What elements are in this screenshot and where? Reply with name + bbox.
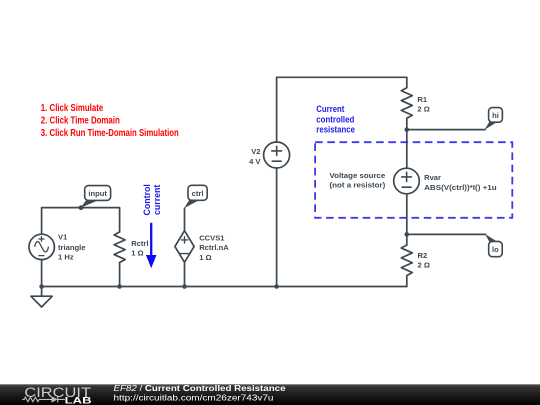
- junction: node input anchor: [79, 205, 84, 210]
- annotation: blue current controlled resistance: [316, 104, 355, 134]
- node hi flag: [484, 108, 502, 130]
- svg-text:EF82 / Current Controlled Resi: EF82 / Current Controlled Resistance: [114, 384, 287, 393]
- footer bar: [0, 384, 540, 405]
- node ctrl flag: [184, 185, 207, 208]
- svg-text:2. Click Time Domain: 2. Click Time Domain: [41, 116, 120, 127]
- resistor Rctrl: [114, 232, 125, 263]
- label V2 value: [249, 147, 261, 166]
- voltage source V2 circle: [264, 142, 290, 168]
- label Rvar value: [424, 173, 497, 192]
- svg-text:R2: R2: [418, 251, 428, 260]
- V2 plus sign: [272, 146, 282, 155]
- svg-text:(not a resistor): (not a resistor): [330, 181, 386, 190]
- V1 sine glyph: [35, 242, 49, 252]
- svg-text:hi: hi: [492, 111, 499, 120]
- svg-text:http://circuitlab.com/cm26zer7: http://circuitlab.com/cm26zer743v7u: [114, 393, 274, 402]
- junction: ground rail at V2: [274, 284, 279, 289]
- svg-text:ABS(V(ctrl))*I() +1u: ABS(V(ctrl))*I() +1u: [424, 183, 497, 192]
- svg-text:V1: V1: [58, 233, 68, 242]
- svg-text:3. Click Run Time-Domain Simul: 3. Click Run Time-Domain Simulation: [41, 128, 179, 139]
- Rvar minus sign: [402, 186, 411, 188]
- svg-text:1 Hz: 1 Hz: [58, 253, 74, 262]
- label CCVS1 value: [199, 233, 229, 262]
- svg-text:1 Ω: 1 Ω: [199, 253, 211, 262]
- resistor R1: [401, 88, 412, 119]
- label R2 value: [418, 251, 430, 270]
- svg-text:Rvar: Rvar: [424, 173, 441, 182]
- V1 minus sign: [39, 255, 44, 257]
- svg-text:Control: Control: [142, 184, 152, 215]
- V1 plus sign: [39, 237, 44, 242]
- node input flag: [81, 186, 111, 208]
- controlled source Rvar circle: [394, 168, 420, 194]
- V2 minus sign: [272, 160, 281, 162]
- Rvar plus sign: [402, 172, 412, 181]
- svg-text:Current: Current: [316, 104, 344, 114]
- annotation: control current rotated text: [142, 184, 162, 215]
- svg-text:V2: V2: [251, 147, 260, 156]
- label R1 value: [417, 95, 429, 114]
- svg-text:Rctrl: Rctrl: [131, 239, 148, 248]
- svg-text:LAB: LAB: [65, 396, 92, 405]
- svg-text:input: input: [88, 189, 107, 198]
- svg-text:1 Ω: 1 Ω: [131, 249, 143, 258]
- wire: R2 bottom to rail: [406, 276, 408, 287]
- wire: V1 bottom to ground rail: [41, 260, 43, 287]
- svg-text:Voltage source: Voltage source: [330, 171, 386, 180]
- annotation: red simulation instructions: [41, 103, 179, 139]
- svg-text:1. Click Simulate: 1. Click Simulate: [41, 103, 104, 114]
- svg-text:controlled: controlled: [316, 114, 354, 124]
- label V1 value: [58, 233, 85, 262]
- wire: hi branch horizontal: [407, 129, 485, 131]
- wire: ground rail (bottom net): [42, 286, 407, 288]
- junction: node hi: [405, 127, 410, 132]
- voltage source V1 circle: [29, 234, 54, 259]
- wire: R1 bottom to hi junction and down to Rvar: [406, 118, 408, 168]
- wire: Rctrl bottom to rail: [119, 263, 121, 287]
- svg-text:2 Ω: 2 Ω: [417, 105, 429, 114]
- svg-text:4 V: 4 V: [249, 157, 261, 166]
- svg-text:2 Ω: 2 Ω: [418, 261, 430, 270]
- wire: CCVS1 bottom to rail: [184, 262, 186, 286]
- wire: V2 bottom to rail: [276, 168, 278, 287]
- CCVS1 plus sign: [181, 237, 187, 243]
- svg-text:ctrl: ctrl: [192, 189, 204, 198]
- wire: input node horizontal (V1 top to Rctrl top): [42, 208, 120, 235]
- junction: ground rail at V1: [39, 284, 44, 289]
- label Rctrl value: [131, 239, 148, 258]
- controlled source CCVS1 diamond: [175, 231, 194, 263]
- ground symbol: [31, 287, 52, 308]
- svg-text:lo: lo: [492, 245, 499, 254]
- wire: ctrl node vertical to CCVS1 top: [184, 208, 186, 231]
- annotation: blue control-current arrow: [146, 223, 157, 268]
- wire: Rvar bottom to lo junction and R2 top: [406, 194, 408, 245]
- wire: lo branch horizontal: [407, 233, 486, 235]
- resistor R2: [401, 245, 412, 276]
- junction: ground rail at CCVS1: [182, 284, 187, 289]
- wire: top rail V2 to R1: [277, 77, 407, 142]
- junction: node lo: [405, 232, 410, 237]
- svg-text:current: current: [152, 185, 162, 215]
- node lo flag: [485, 234, 502, 257]
- CircuitLab logo: resistor-diode glyph: [22, 396, 65, 402]
- svg-text:Rctrl.nA: Rctrl.nA: [199, 243, 229, 252]
- junction: ground rail at Rctrl: [117, 284, 122, 289]
- svg-text:R1: R1: [417, 95, 427, 104]
- annotation: blue dashed box (voltage source region): [315, 142, 512, 218]
- svg-text:triangle: triangle: [58, 243, 85, 252]
- annotation: voltage source note: [330, 171, 386, 190]
- CCVS1 minus sign: [180, 253, 188, 255]
- svg-text:CCVS1: CCVS1: [199, 233, 225, 242]
- svg-text:resistance: resistance: [316, 125, 355, 135]
